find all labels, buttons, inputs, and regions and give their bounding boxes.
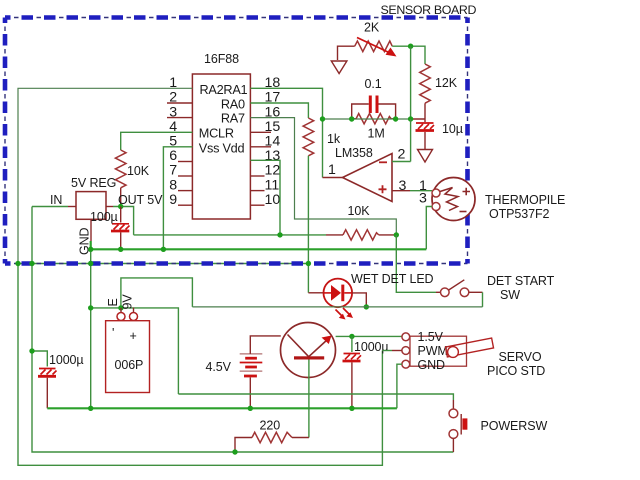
svg-text:9: 9 [169,192,177,208]
switch S2 POWERSW bottom contact [449,430,458,439]
wire: pin4 MCLR to 10K pullup [121,132,193,150]
wire: POWERSW bottom to rail [452,438,454,452]
battery B1 006P body [106,321,150,393]
pin 12 stub [250,175,264,177]
svg-text:LM358: LM358 [335,146,373,160]
LED emission arrows [336,308,354,320]
wire: 2K right to 12K top [392,46,425,64]
wire: RC row [323,118,411,120]
wire: pin13 down to 5V rail [250,160,280,235]
pin 10 stub [250,204,264,206]
svg-text:GND: GND [418,358,446,372]
servo pin circle PWM [402,347,410,355]
op-amp minus sign [379,161,387,163]
svg-text:1000µ: 1000µ [354,340,389,354]
capacitor C-1000u #2 top lead [351,336,353,352]
wire: pin5 Vss down to GND rail [163,147,192,250]
svg-text:1: 1 [328,162,336,178]
resistor R-12K vertical [420,64,431,103]
svg-text:RA7: RA7 [221,111,245,125]
wire: DET SW left contact stub [436,291,441,293]
transistor Q1 base bar [294,356,324,359]
switch S1 DET START right contact [460,288,469,297]
potentiometer R-2K arrow [357,38,397,57]
svg-text:2K: 2K [364,21,380,35]
node: border port D [306,261,311,266]
sensor board border (blue dashed) [5,18,468,264]
svg-text:12: 12 [265,163,281,179]
node: GND at regulator [88,247,93,252]
svg-text:7: 7 [169,163,177,179]
svg-text:5V REG: 5V REG [71,176,116,190]
node: 10K right junction [394,232,399,237]
node: 220 to power rail [232,449,237,454]
pin 3 stub [167,117,192,119]
svg-text:PWM: PWM [418,344,448,358]
resistor R-1k vertical [303,118,314,156]
wire: pin18 RA1 right and down to node [250,88,322,119]
pin 8 stub [178,190,192,192]
wire: inverting input [392,119,411,162]
pin 2 stub [167,102,192,104]
svg-text:11: 11 [265,177,280,193]
wire: left power rail vertical [32,207,453,453]
ground symbol at 10u [418,150,433,163]
switch S2 button [461,414,467,435]
pin 9 stub [178,204,192,206]
capacitor C-1000u #2 plates [343,354,362,362]
switch S2 POWERSW top contact [449,409,458,418]
svg-text:0.1: 0.1 [365,77,382,91]
wire: 5V rail to 10K feedback [134,234,326,236]
switch S1 lever [449,280,465,290]
wire: regulator GND lead [90,219,92,241]
svg-text:10µ: 10µ [442,122,463,136]
battery B1 clip circles [117,308,138,321]
node: emitter/1000u junction [349,334,354,339]
LED D2 triangle and cathode bar [324,285,352,302]
node: 2K/12K junction [408,44,413,49]
svg-text:WET DET LED: WET DET LED [351,272,434,286]
svg-text:3: 3 [419,191,427,207]
svg-text:+: + [130,329,137,343]
wire: pin16 RA7 down and over to 10K right node [250,118,396,235]
capacitor C-1000u #1 bottom lead to rail [46,378,48,409]
node: battery to rail [248,406,253,411]
node: LED to rail junction [364,304,369,309]
node: GND at Vss [161,247,166,252]
servo pin circle 1.5V [402,333,410,341]
node: RC row at 1M right [393,116,398,121]
capacitor C-100u polarized plates [111,224,130,231]
svg-text:16F88: 16F88 [204,52,239,66]
LED D2 circle [324,279,353,308]
servo pin circle GND [402,360,410,368]
capacitor C-1000u #2 bottom lead [351,362,353,408]
node: RC row at 1M left [349,116,354,121]
wire: PWM pin to bottom run [392,350,402,352]
svg-text:Vss Vdd: Vss Vdd [199,141,245,155]
wire: DET SW drop [482,292,484,307]
node: GND at 100u [118,247,123,252]
svg-text:4.5V: 4.5V [206,360,232,374]
wire: battery plus rail [192,306,482,308]
node: OUT 5V junction [118,204,123,209]
node: RC row at RA1 [320,116,325,121]
svg-text:1.5V: 1.5V [418,330,444,344]
thermopile pin circle 3 [432,203,440,211]
wire: DET SW right to LED rail [469,291,483,293]
wire: thermopile pin1 link [410,190,432,192]
node: battery row at clip [118,305,123,310]
node: 1000u tap [29,348,34,353]
svg-text:OTP537F2: OTP537F2 [489,207,549,221]
servo J1 connector box [410,336,467,366]
svg-text:006P: 006P [115,358,144,372]
wire: battery bottom lead to rail [249,378,251,409]
wire: GND net along border (under dashes) [18,263,308,265]
wire: OUT stub red [106,206,113,208]
svg-text:MCLR: MCLR [199,126,234,140]
resistor R-220 zigzag [252,432,292,442]
svg-text:12K: 12K [435,76,458,90]
wire: 10K junction down to DET SW [396,235,436,292]
node: RC row at 12K [408,116,413,121]
svg-text:OUT 5V: OUT 5V [118,193,163,207]
capacitor C-0.1 plates [370,96,377,114]
wire: power rail to POWERSW top [178,394,453,400]
svg-text:POWERSW: POWERSW [481,419,548,433]
svg-text:3: 3 [399,178,407,194]
wire: left rail down to bottom PWM run [18,264,382,466]
thermopile minus sign [460,211,467,213]
capacitor C-1000u #1 tap wire [32,351,47,367]
svg-text:2: 2 [398,147,406,163]
wire: 10u bottom lead [424,132,426,149]
svg-text:100µ: 100µ [90,210,118,224]
resistor R-1M horizontal [352,114,396,124]
thermopile D1 body circle [432,178,475,221]
wire: OUT node to 5V run [113,207,134,235]
pin 11 stub [250,190,264,192]
node: battery row at GND drop [88,305,93,310]
node: border port A [15,261,20,266]
regulator U2 5V REG body [76,192,106,220]
wire: junction down to RC node [410,46,412,119]
wire: 10K bottom to OUT node [120,188,122,207]
wire: LED cathode to battery rail [352,293,366,307]
servo horn [445,338,493,357]
wire: LED anode from 1k net [308,292,324,294]
thermopile plus sign [463,188,471,195]
wire: IN input from left rail [32,206,68,208]
op-amp plus sign [379,185,387,193]
wire: main bottom rail [47,407,397,409]
wire: battery top lead to collector [250,336,280,354]
svg-text:SW: SW [500,288,520,302]
wire: thermopile pin3 to GND rail [426,207,432,250]
svg-text:SENSOR BOARD: SENSOR BOARD [381,3,477,17]
wire: 0.1 bracket right [379,104,396,119]
wire: 1k bottom down to LED anode [307,156,309,293]
transistor Q1 emitter line with arrow [309,336,332,357]
IC U1 16F88 body [192,74,250,219]
capacitor C-100u bottom lead [120,232,122,249]
wire: node to op-amp output [322,119,324,178]
svg-text:9V: 9V [121,294,135,310]
svg-text:': ' [112,326,114,340]
wire: battery row left segment [91,308,179,394]
wire: battery loop up-over [121,278,192,308]
thermopile pin circle 1 [432,189,440,197]
potentiometer R-2K zigzag [355,41,393,52]
wire: op-amp output stub [323,177,344,179]
resistor R-220 leads [235,438,309,453]
pin 14 stub [250,146,271,148]
capacitor C-100u top lead [120,207,122,223]
capacitor C-10u polarized plates [416,123,435,131]
wire: non-inverting input to thermopile [392,190,410,192]
pin 6 stub [178,161,192,163]
pin 15 stub [250,131,271,133]
node: Vdd 5V at pin13 [277,232,282,237]
svg-text:SERVO: SERVO [499,350,542,364]
transistor Q1 collector line [288,335,309,357]
wire: servo GND pin down to rail [397,364,402,408]
capacitor C-1000u #1 plates [38,369,57,377]
svg-text:RA2RA1: RA2RA1 [200,83,248,97]
svg-text:RA0: RA0 [221,97,245,111]
node: border port B [29,261,34,266]
wire: GND drop through border to battery row [90,249,92,408]
svg-text:10K: 10K [348,204,371,218]
node: rail at GND drop [88,406,93,411]
wire: emitter to servo 1.5V [336,335,402,337]
svg-text:THERMOPILE: THERMOPILE [485,193,565,207]
svg-text:1000µ: 1000µ [49,353,84,367]
pin 7 stub [178,175,192,177]
svg-text:IN: IN [50,193,62,207]
switch S1 DET START left contact [441,288,450,297]
transistor Q1 circle [281,323,336,378]
wire: pin17 RA0 to 1k top [250,103,308,118]
ground symbol at 2K [331,61,347,74]
svg-text:10K: 10K [127,164,150,178]
resistor R-10K pullup vertical [115,150,126,188]
wire: pin1 RA2 to left rail [18,88,192,263]
wire: GND rail [91,241,427,249]
resistor R-10K feedback zigzag [343,230,379,240]
svg-text:PICO STD: PICO STD [487,364,545,378]
node: border port C [88,261,93,266]
svg-text:10: 10 [265,192,281,208]
wire: 2K left lead [338,46,355,60]
op-amp U3 LM358 triangle [343,154,393,202]
battery B2 4.5V cells [240,354,263,376]
svg-text:1M: 1M [368,127,385,141]
wire: 12K bottom to 10u [411,103,425,122]
svg-text:220: 220 [260,419,281,433]
wire: base lead down to 220 [308,360,310,438]
svg-text:1k: 1k [327,132,341,146]
wire: 0.1 bracket left [352,104,369,119]
resistor R-10K feedback leads [326,234,396,236]
svg-text:E: E [106,298,120,306]
node: 1000u #2 to rail [349,406,354,411]
svg-text:8: 8 [169,177,177,193]
svg-text:DET START: DET START [487,274,555,288]
wire: IN stub red [68,206,76,208]
thermopile internal element zigzag [440,188,458,211]
